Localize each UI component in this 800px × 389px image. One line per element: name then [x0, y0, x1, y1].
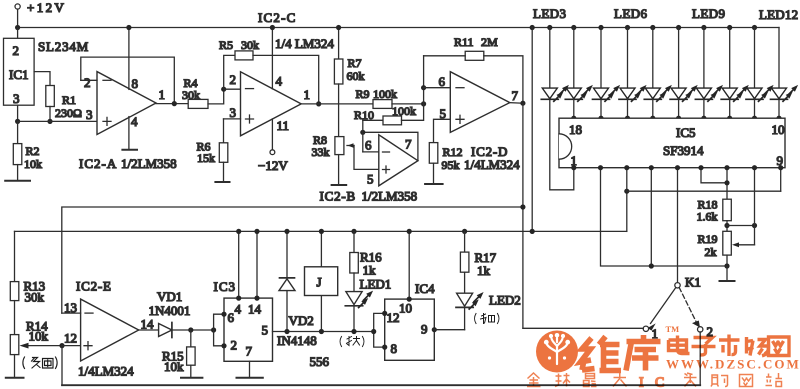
LED 8 of bar [721, 25, 749, 121]
svg-text:10k: 10k [164, 359, 184, 374]
svg-text:5: 5 [367, 172, 374, 187]
node rail-pin8 [126, 25, 131, 30]
wire IC2-A output [156, 103, 188, 105]
wire IC2-E output [139, 329, 159, 331]
node IC5 pin7 [724, 165, 729, 170]
IC1 SL234M [4, 38, 90, 106]
op-amp IC2-C [230, 10, 335, 136]
wire R18R19 to pin8 column [727, 225, 755, 227]
node feedback to IC2-D column [520, 204, 525, 209]
svg-text:4: 4 [131, 114, 138, 129]
svg-text:5: 5 [262, 323, 269, 338]
svg-text:I: I [639, 376, 644, 389]
watermark char dian [669, 336, 690, 354]
IC4 half 556 [385, 281, 435, 360]
svg-text:33k: 33k [312, 145, 330, 159]
LED 2 of bar [565, 25, 593, 121]
svg-text:R12: R12 [443, 145, 463, 159]
svg-text:8: 8 [391, 341, 398, 356]
svg-text:WWW.DZSC.COM: WWW.DZSC.COM [666, 357, 800, 372]
svg-text:100k: 100k [392, 104, 416, 118]
watermark slogan da [613, 373, 627, 387]
wire IC5 pin9 down [780, 168, 782, 192]
svg-text:6: 6 [439, 74, 446, 89]
wire +12V bottom rail y232 [15, 230, 627, 232]
wire R9 right [392, 103, 424, 105]
wire IC2-C pin3 stub [224, 118, 241, 120]
wire IC3 pin4 vertical [236, 229, 241, 301]
svg-text:R9: R9 [356, 87, 370, 101]
potentiometer R14 10k multiturn [10, 319, 62, 378]
wire IC5 pin8 down [754, 168, 756, 245]
svg-text:2: 2 [13, 43, 20, 58]
wire IC3 pin5 line [273, 331, 374, 333]
svg-text:IC3: IC3 [214, 279, 237, 294]
label (duoquan) multiturn [23, 357, 57, 369]
node IC2-C pin2 [221, 87, 226, 92]
node IC1-R2 [15, 119, 20, 124]
svg-text:2: 2 [230, 72, 237, 87]
wire IC2-C pin11 down [271, 119, 273, 150]
node R1-bottom [47, 119, 52, 124]
wire IC5 pin1 loop [550, 99, 574, 190]
watermark slogan qiu [555, 373, 570, 387]
resistor R4 30k [182, 76, 208, 108]
svg-text:10: 10 [772, 122, 785, 137]
op-amp IC2-D [439, 72, 521, 172]
wire +12V top rail [18, 27, 779, 29]
resistor R5 30k [219, 38, 259, 60]
svg-text:IN4148: IN4148 [277, 333, 317, 348]
svg-text:4: 4 [276, 74, 283, 89]
diode VD2 1N4148 flyback [277, 229, 317, 348]
svg-text:100k: 100k [373, 87, 397, 101]
svg-text:2M: 2M [481, 35, 498, 49]
wiper arrow R19 [732, 242, 755, 247]
node IC5 pin4 top [649, 165, 654, 170]
ground IC5 divider [720, 266, 735, 281]
node IC2-D pin6 [421, 85, 426, 90]
svg-text:230Ω: 230Ω [55, 106, 82, 120]
node +12V drop joins rail [530, 229, 535, 234]
resistor R10 100k [354, 56, 424, 125]
wire pin12 down to bottom rail [61, 346, 63, 386]
watermark slogan quan [527, 373, 541, 387]
LED 9 of bar [746, 25, 774, 121]
svg-text:IC5: IC5 [676, 125, 696, 140]
svg-text:1: 1 [304, 87, 311, 102]
svg-text:LED3: LED3 [533, 6, 566, 21]
node IC5 pin1 [571, 165, 576, 170]
wire pin12 stub [62, 345, 81, 347]
svg-text:IC2-C: IC2-C [258, 10, 297, 25]
node pin8 column [752, 223, 757, 228]
ground R12 [425, 183, 443, 185]
svg-text:10: 10 [399, 301, 412, 316]
svg-text:IC2-A: IC2-A [79, 156, 117, 171]
op-amp IC2-E [64, 279, 154, 379]
wire IC4 pin9 out [432, 327, 465, 332]
watermark char shi [719, 335, 740, 357]
svg-text:IC2-E: IC2-E [76, 279, 112, 294]
svg-text:3: 3 [13, 91, 20, 106]
watermark slogan zhan [766, 373, 783, 387]
LED 4 of bar [619, 25, 647, 121]
svg-text:TM: TM [666, 324, 680, 334]
svg-text:60k: 60k [347, 69, 365, 83]
svg-text:K1: K1 [685, 275, 701, 290]
svg-text:4: 4 [235, 302, 242, 317]
svg-text:VD1: VD1 [157, 289, 182, 304]
resistor R13 30k [10, 231, 45, 334]
node pin6-pin7-R18 [724, 180, 729, 185]
svg-text:1k: 1k [477, 263, 491, 278]
node pin3-mode [624, 189, 629, 194]
node R19 bottom ground [724, 263, 729, 268]
wire IC4 pin10 vertical [407, 229, 412, 302]
node rail-left [15, 25, 20, 30]
watermark char chang [747, 337, 769, 356]
watermark char wang [769, 337, 790, 356]
LED 7 of bar [695, 25, 723, 121]
resistor R6 15k [197, 140, 228, 182]
wire IC2-D output vertical long [522, 103, 524, 328]
wire IC2-A pin2 stub [81, 79, 97, 81]
watermark slogan wang2 [740, 375, 753, 387]
svg-text:556: 556 [310, 354, 330, 369]
contact 2 [698, 324, 714, 339]
watermark slogan cai [684, 373, 697, 387]
resistor R7 60k [334, 28, 364, 137]
terminal -12V [258, 150, 288, 173]
svg-text:C: C [655, 376, 664, 389]
svg-text:LED1: LED1 [360, 277, 392, 292]
svg-text:2k: 2k [705, 245, 717, 259]
ground R14 [6, 377, 24, 379]
svg-text:J: J [317, 275, 322, 290]
ground R8 [332, 184, 347, 186]
LED 6 of bar [670, 25, 698, 121]
node IC2-D output [520, 101, 525, 106]
svg-text:R1: R1 [62, 93, 76, 107]
IC5 SF3914 [559, 118, 785, 168]
wire IC2-B pin6 stub [363, 151, 379, 153]
node R9-R10-R11 [421, 101, 426, 106]
svg-text:12: 12 [387, 310, 400, 325]
svg-text:9: 9 [421, 322, 428, 337]
wire pin3 down to R6 [223, 119, 225, 143]
node pin4 ground rail [649, 263, 654, 268]
wire IC3 pin14 vertical [254, 229, 259, 301]
wire IC2-B feedback [363, 132, 418, 160]
wire IC2-A feedback loop [81, 57, 175, 104]
wire IC2-D out to contact1 [523, 327, 643, 329]
wire IC2-C output to R9 [301, 103, 373, 105]
wire feedback line IC2-E pin13 [62, 207, 523, 313]
svg-text:R11: R11 [454, 35, 474, 49]
svg-text:R2: R2 [26, 144, 40, 158]
LED1 green [345, 277, 391, 335]
wire R5 to IC2-C output [253, 55, 319, 104]
svg-text:IC4: IC4 [415, 281, 435, 296]
svg-text:SF3914: SF3914 [663, 143, 704, 158]
svg-text:1/4LM324: 1/4LM324 [78, 364, 134, 379]
resistor R12 95k [429, 143, 462, 184]
svg-text:R5: R5 [219, 38, 233, 52]
contact 1 [643, 326, 658, 341]
node VD1 R15 [188, 327, 193, 332]
resistor R17 1k [460, 229, 496, 293]
diode VD1 1N4001 [149, 289, 214, 338]
svg-text:1/4 LM324: 1/4 LM324 [275, 36, 334, 51]
svg-text:LED6: LED6 [614, 6, 647, 21]
wire IC2-D pin6 stub [424, 87, 451, 89]
svg-text:2: 2 [84, 75, 91, 90]
op-amp IC2-B [320, 135, 418, 204]
svg-text:1: 1 [159, 87, 166, 102]
node rail x532 [530, 25, 535, 30]
svg-text:30k: 30k [241, 38, 259, 52]
svg-text:3: 3 [86, 107, 93, 122]
wire noninv input IC2-A [18, 120, 97, 122]
wire IC2-C feedback loop left [224, 55, 235, 89]
wire IC1 right to R1 [34, 72, 50, 86]
svg-text:R10: R10 [354, 108, 374, 122]
op-amp IC2-A [79, 72, 177, 171]
wire mode line pin3 to pin9 [627, 190, 781, 192]
switch K1 [648, 275, 701, 331]
svg-text:7: 7 [512, 88, 519, 103]
svg-text:12: 12 [64, 331, 77, 346]
resistor R1 230ohm [46, 86, 82, 122]
svg-text:R19: R19 [698, 232, 718, 246]
LED 1 of bar [541, 25, 569, 101]
svg-text:8: 8 [132, 76, 139, 91]
watermark slogan gou [711, 375, 728, 387]
potentiometer R19 2k [698, 231, 732, 266]
svg-text:6: 6 [365, 138, 372, 153]
ground R2 [5, 180, 30, 182]
resistor R2 10k [13, 121, 42, 180]
wire IC2-C pin2 stub [224, 88, 241, 90]
node VD1 wire to IC3 bracket [211, 327, 216, 332]
resistor R11 2M [424, 35, 523, 103]
resistor R9 100k [356, 87, 398, 108]
wire IC2-D pin5 stub [434, 119, 451, 142]
LED 10 of bar [771, 28, 799, 121]
resistor R16 1k [350, 229, 382, 292]
node IC5 pin8 [752, 165, 757, 170]
watermark char wei [581, 337, 622, 371]
svg-text:7: 7 [246, 344, 253, 359]
potentiometer R8 33k [312, 133, 355, 185]
node R18-R19 [724, 223, 729, 228]
svg-text:+12V: +12V [27, 0, 66, 15]
wire IC2-A pin8 to rail [128, 28, 130, 90]
resistor R18 1.6k [697, 198, 732, 232]
LED2 red [456, 292, 521, 330]
node IC2-C output [316, 101, 321, 106]
svg-text:7: 7 [405, 137, 412, 152]
wire IC2-C pin4 to rail [271, 28, 273, 89]
svg-text:95k: 95k [442, 158, 460, 172]
wire IC3 bracket pin6 pin2 [214, 312, 227, 349]
wire R4 to IC2-C pin2 [208, 89, 224, 104]
svg-text:1k: 1k [363, 263, 377, 278]
svg-text:10k: 10k [29, 329, 49, 344]
svg-text:LED9: LED9 [692, 6, 725, 21]
label green [340, 337, 364, 347]
watermark logo circle [536, 331, 578, 373]
svg-text:3: 3 [230, 105, 237, 120]
relay coil J [305, 229, 338, 334]
svg-text:14: 14 [141, 317, 155, 332]
wire pin13 stub [62, 312, 81, 314]
svg-text:11: 11 [277, 118, 290, 133]
wire IC1 pin3 down [17, 105, 19, 121]
ground R15 [181, 377, 202, 379]
wire bottom rail [62, 384, 700, 386]
wire rail to IC1 [17, 28, 19, 39]
node IC5 pin6 [698, 165, 703, 170]
node rail-pin4 [270, 25, 275, 30]
node IC5 pin2 [598, 165, 603, 170]
svg-text:6: 6 [228, 310, 235, 325]
wire +12V drop to bottom rail [531, 28, 533, 232]
wire IC3 pin7 ground [237, 361, 263, 378]
ground IC2-A pin4 [122, 149, 137, 151]
svg-text:14: 14 [248, 302, 262, 317]
svg-text:LED12: LED12 [759, 7, 798, 22]
svg-text:1/2LM358: 1/2LM358 [362, 189, 418, 204]
label red [475, 314, 499, 324]
wire IC5 pin3 down [626, 168, 628, 232]
svg-text:VD2: VD2 [289, 313, 314, 328]
node rail-R7 [336, 25, 341, 30]
svg-text:LED2: LED2 [489, 293, 521, 308]
svg-text:1.6k: 1.6k [697, 210, 718, 224]
LED 3 of bar [593, 25, 621, 121]
wire IC2-D output [510, 102, 523, 105]
node IC5 pin9 [778, 165, 783, 170]
svg-text:15k: 15k [197, 151, 215, 165]
svg-text:30k: 30k [25, 290, 45, 305]
IC3 half 556 [214, 279, 273, 361]
svg-text:1/2LM358: 1/2LM358 [121, 156, 177, 171]
svg-text:IC2-B: IC2-B [320, 189, 357, 204]
wire pin6 vertical [362, 120, 364, 152]
svg-text:IC1: IC1 [9, 67, 29, 82]
node R14 wiper pin12 [59, 343, 64, 348]
svg-text:18: 18 [569, 122, 582, 137]
wire R8 wiper to IC2-B pin5 [354, 146, 379, 170]
svg-text:SL234M: SL234M [38, 39, 89, 54]
wire IC5 pin2 to ground rail [601, 168, 729, 266]
wire IC2-A pin4 ground [128, 117, 130, 150]
resistor R15 10k [162, 330, 195, 378]
svg-text:−12V: −12V [258, 158, 288, 173]
LED 5 of bar [644, 25, 672, 121]
watermark slogan zui [584, 374, 597, 387]
wire IC5 pin5 to K1 [677, 168, 679, 283]
node IC5 pin3 [624, 165, 629, 170]
wire IC5 pin4 to ground rail [650, 168, 652, 266]
svg-text:30k: 30k [182, 88, 200, 102]
wire IC4 bracket pin12 pin8 [371, 311, 387, 350]
ground R6 [215, 181, 229, 183]
wire contact2 down to bottom rail [699, 332, 701, 386]
svg-text:10k: 10k [24, 157, 42, 171]
wire IC5 pin6 L to R18 [701, 168, 727, 183]
svg-text:1N4001: 1N4001 [149, 303, 191, 318]
node IC5 pin5 [675, 165, 680, 170]
svg-text:2: 2 [231, 338, 238, 353]
svg-text:1/4LM324: 1/4LM324 [464, 157, 520, 172]
node IC2-A output [172, 101, 177, 106]
terminal +12V [15, 0, 66, 28]
wire IC5 pin7 down [726, 168, 728, 200]
watermark char zi [692, 338, 716, 355]
svg-text:R7: R7 [348, 56, 362, 70]
watermark char ku [626, 335, 661, 371]
node IC2-B pin6 [360, 130, 365, 135]
